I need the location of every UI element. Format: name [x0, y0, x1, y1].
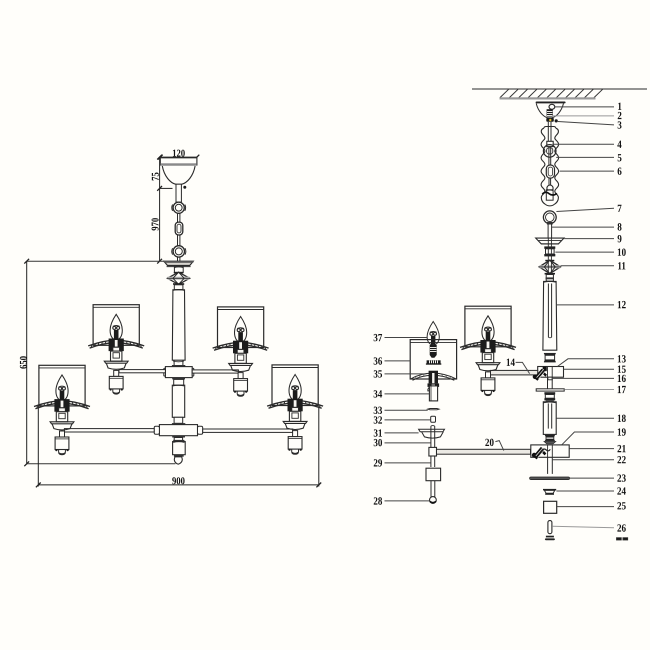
lower arm left — [64, 429, 154, 432]
finial tip — [174, 455, 184, 457]
part 31 bobeche — [419, 429, 445, 431]
part 25 square — [544, 501, 557, 513]
leader 10 — [555, 251, 614, 253]
ceiling hatching — [500, 89, 603, 97]
part 2 nut — [547, 109, 553, 116]
label 12 — [618, 301, 626, 308]
label 26 — [617, 524, 625, 531]
leader 2 — [553, 115, 614, 117]
label 10 — [618, 248, 626, 255]
label 13 — [618, 355, 626, 362]
chain break squiggle — [542, 192, 557, 195]
leader 34 — [385, 393, 430, 395]
stem above saucer — [547, 224, 549, 238]
lower hub dark flange top — [172, 423, 185, 425]
bottom nub ball — [430, 497, 437, 504]
saucer part 9 — [536, 238, 564, 244]
chain lower link — [546, 190, 553, 200]
wire squiggle in lower hub — [541, 449, 550, 451]
leader 31 — [385, 432, 419, 434]
canopy (inverted) top bar — [536, 102, 566, 104]
leader 33 — [385, 409, 428, 411]
stem below box — [430, 481, 432, 497]
label 36 — [374, 357, 382, 364]
leader 13 — [558, 359, 614, 367]
stem below canopy — [547, 122, 549, 142]
label 9 — [618, 235, 622, 242]
lower arm right — [203, 429, 293, 432]
leader 1 — [555, 106, 614, 108]
rod part 30 — [430, 426, 432, 447]
leader 14 — [516, 362, 530, 373]
dimension 120 text — [173, 150, 185, 157]
shade bottom dish — [411, 373, 456, 379]
leader 15 — [564, 368, 614, 370]
label 23 — [617, 474, 625, 481]
label 21 — [618, 445, 626, 452]
column part 18 — [543, 402, 556, 435]
finial cup — [173, 442, 186, 455]
label 25 — [617, 502, 625, 509]
label 2 — [618, 112, 622, 119]
part number labels (left column) — [374, 334, 515, 505]
leader 6 — [560, 170, 614, 172]
lower hub — [159, 425, 197, 436]
leader 30 — [385, 442, 431, 444]
lower-left candle & shade — [34, 365, 90, 454]
label 19 — [618, 428, 626, 435]
canopy bell — [162, 166, 195, 184]
lower hub dark flange bottom — [172, 436, 185, 438]
label 24 — [617, 487, 625, 494]
part 19 spool — [545, 435, 555, 437]
part 33 washer — [428, 409, 439, 410]
dark saucer below 19 — [544, 441, 556, 444]
label 20 — [485, 439, 493, 446]
leader 12 — [557, 304, 614, 306]
leader 16 — [553, 377, 614, 379]
label 3 — [618, 121, 622, 128]
part 36 shade — [410, 340, 456, 379]
arm part 20 — [437, 449, 531, 454]
neck under saucer — [174, 267, 183, 273]
label 22 — [617, 456, 625, 463]
label 7 — [618, 205, 622, 212]
leader 37 — [385, 337, 428, 339]
central threaded rod through parts 9-11 — [547, 238, 549, 282]
lower hub (exploded) — [531, 445, 569, 457]
label 15 — [618, 366, 626, 373]
part 24 cup — [543, 489, 556, 491]
dimension 650 text — [20, 356, 27, 368]
leader 3 — [558, 122, 614, 125]
chain ring 1 — [173, 202, 184, 213]
leader 35 — [385, 373, 427, 375]
chain link line — [548, 178, 550, 185]
part 11 bicone — [545, 260, 554, 262]
bicone ornament — [174, 272, 184, 274]
screw in lower hub — [532, 447, 547, 460]
leader 32 — [385, 419, 431, 421]
label 30 — [374, 439, 382, 446]
label 18 — [618, 415, 626, 422]
upper column — [172, 290, 185, 360]
column part 12 — [543, 281, 557, 350]
upper hub (exploded) — [538, 367, 564, 378]
label 28 — [374, 497, 382, 504]
label 1 — [618, 103, 621, 110]
dish hatch ticks — [415, 374, 450, 379]
dimension 900 text — [172, 477, 184, 484]
leader 24 — [556, 490, 614, 492]
leader 5 — [556, 156, 614, 158]
socket flange — [428, 383, 440, 387]
leader 21 — [569, 448, 614, 450]
dimension 75 line — [157, 155, 172, 191]
elbow block — [429, 447, 437, 456]
dimension 970 line — [157, 188, 162, 263]
canopy (inverted) bell — [536, 103, 563, 118]
dimension 75 text — [152, 173, 159, 181]
label 35 — [374, 370, 382, 377]
upper hub dark flange top — [172, 365, 185, 367]
washer part 17 — [536, 389, 564, 391]
leader 29 — [385, 462, 431, 464]
part 35 threaded socket — [426, 360, 441, 364]
upper hub — [165, 367, 192, 378]
finial neck — [174, 438, 182, 442]
bulb base — [431, 336, 435, 345]
dimension 650 line — [24, 259, 29, 466]
arm to upper candle — [490, 370, 537, 375]
sleeve bottom cap — [545, 204, 554, 206]
part 28 box — [426, 468, 441, 481]
leader 17 — [564, 389, 614, 391]
neck below upper column — [174, 360, 183, 366]
part 26 cylinder — [548, 521, 552, 534]
middle column — [172, 385, 184, 417]
label 29 — [374, 459, 382, 466]
leader 36 — [385, 360, 411, 362]
label 27 (clipped digits) — [617, 538, 622, 540]
leader 25 — [557, 506, 614, 508]
disc part 23 — [530, 477, 570, 480]
part 27 finial — [546, 536, 554, 538]
leader 19 — [562, 432, 614, 445]
chain connector — [177, 213, 179, 222]
leader 8 — [552, 226, 614, 228]
leader 11 — [561, 265, 614, 267]
stem part 29 — [430, 456, 432, 467]
neck below upper hub — [174, 379, 184, 385]
part 3 set screw dot — [555, 119, 558, 122]
stem below upper hub — [547, 377, 549, 389]
leader 23 — [570, 477, 614, 479]
label 31 — [374, 429, 382, 436]
label 6 — [618, 168, 622, 175]
label 37 — [374, 334, 382, 341]
dimension 120 line — [158, 155, 199, 160]
upper-right candle & shade — [213, 307, 269, 396]
part 13 spool — [544, 353, 556, 355]
chain small ring — [547, 185, 553, 191]
part 10 spool — [544, 246, 555, 248]
leader 7 — [556, 208, 614, 211]
neck above column — [174, 285, 183, 290]
leader 22 — [553, 459, 614, 461]
leader 4 — [553, 143, 614, 145]
neck below middle column — [174, 417, 183, 423]
ring part 7 — [543, 211, 556, 224]
part 37 flame bulb — [427, 322, 439, 346]
chain ring 2 — [173, 246, 184, 257]
label 14 — [507, 359, 515, 366]
body saucer — [164, 261, 193, 265]
leader 18 — [556, 417, 614, 419]
canopy top plate — [160, 158, 197, 165]
label 4 — [617, 141, 621, 148]
part 6 wavy sleeve right edge — [554, 128, 558, 204]
label 32 — [374, 416, 382, 423]
chain middle link — [175, 222, 183, 235]
part 34 candle sleeve — [428, 387, 430, 391]
lower-right candle & shade — [267, 365, 323, 454]
screw in upper hub — [533, 367, 547, 381]
part number labels (right column) — [617, 103, 628, 540]
sleeve top cap — [544, 127, 556, 129]
canopy screw dot — [183, 186, 186, 189]
upper arm right — [192, 370, 238, 373]
label 8 — [618, 223, 622, 230]
spool below washer — [544, 392, 555, 394]
label 17 — [618, 386, 626, 393]
ceiling line — [472, 88, 647, 90]
part 4 square connector — [547, 141, 553, 146]
chain connector 2 — [177, 235, 179, 246]
chain connector line — [548, 147, 550, 166]
part 6 wavy sleeve left edge — [541, 128, 545, 204]
neck below bicone — [546, 275, 553, 282]
part 1 loop — [549, 104, 555, 109]
leader 28 — [385, 500, 430, 502]
canopy stem — [176, 184, 181, 202]
part 32 small cylinder — [431, 416, 436, 422]
dimension 970 text — [152, 218, 159, 230]
ceiling lower gray band — [500, 97, 596, 99]
part 3 collar — [546, 118, 554, 122]
upper-left candle & shade — [88, 305, 144, 394]
upper hub dark flange bottom — [172, 378, 185, 380]
upper arm left — [119, 370, 165, 373]
extension line saucer-left (650 top) — [27, 260, 165, 262]
stem to saucer — [177, 257, 179, 261]
chain elongated link — [546, 165, 554, 178]
chain top ring — [543, 145, 556, 158]
label 5 — [618, 154, 622, 161]
extension line 650 bottom — [27, 463, 176, 465]
label 33 — [374, 407, 382, 414]
label 34 — [374, 390, 383, 397]
label 16 — [618, 375, 626, 382]
socket column (black) — [429, 371, 438, 384]
label 11 — [618, 262, 625, 269]
leader 20 — [495, 441, 503, 451]
dimension 900 line — [36, 406, 321, 488]
leader 9 — [564, 238, 614, 240]
leader 26 — [552, 526, 614, 528]
stem below lower hub part 22 — [547, 457, 549, 474]
ring 7 collar — [547, 222, 553, 225]
